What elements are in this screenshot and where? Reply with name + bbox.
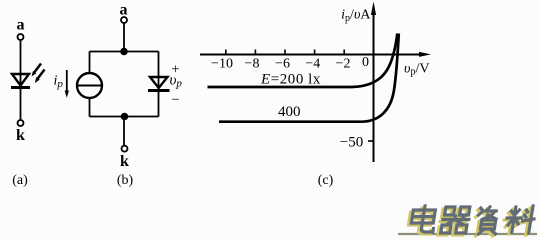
svg-text:−10: −10 — [211, 57, 233, 72]
svg-text:k: k — [16, 127, 25, 144]
svg-text:(a): (a) — [12, 173, 28, 188]
junction bottom — [121, 113, 129, 121]
tick -4 — [314, 50, 316, 55]
svg-text:k: k — [120, 153, 129, 170]
svg-text:−: − — [171, 92, 179, 108]
svg-text:(c): (c) — [318, 173, 334, 188]
diode VD (part b) cathode bar — [148, 89, 170, 92]
photodiode VD (part a) cathode bar — [11, 86, 30, 89]
tick -10 — [225, 50, 227, 55]
svg-text:400: 400 — [278, 104, 301, 120]
svg-text:−50: −50 — [340, 135, 363, 151]
wire bottom rail — [90, 116, 159, 118]
junction top — [120, 48, 128, 56]
tick -50 on y axis — [368, 140, 374, 142]
terminal k (part b) — [122, 146, 128, 152]
photodiode VD (part a) triangle — [12, 74, 29, 86]
terminal a (part a) — [18, 34, 24, 40]
curve 400lx — [219, 34, 399, 122]
svg-text:−2: −2 — [336, 57, 351, 72]
light arrow 1 — [32, 64, 42, 77]
svg-text:−6: −6 — [275, 57, 290, 72]
wire left branch upper — [89, 52, 91, 74]
svg-text:a: a — [17, 17, 25, 34]
wire left branch lower — [89, 98, 91, 117]
svg-text:−8: −8 — [245, 57, 260, 72]
tick -2 — [343, 50, 345, 55]
diode VD (part b) triangle — [150, 77, 168, 88]
tick -8 — [254, 50, 256, 55]
curve E=200lx — [208, 34, 398, 88]
terminal a (part b) — [121, 17, 127, 23]
watermark text (stylized) — [407, 206, 536, 236]
light arrow 2 — [35, 70, 45, 84]
current arrow iP — [65, 70, 69, 98]
wire top rail — [90, 51, 159, 53]
wire bottom rail to terminal k — [123, 117, 125, 146]
svg-text:(b): (b) — [117, 173, 134, 188]
current source chord — [78, 85, 102, 87]
svg-text:−4: −4 — [305, 57, 320, 72]
wire terminal a to top rail — [123, 23, 125, 52]
svg-text:0: 0 — [362, 55, 369, 70]
x axis — [200, 52, 431, 57]
wire right branch — [158, 52, 160, 117]
y axis — [371, 2, 376, 163]
svg-text:υp/V: υp/V — [404, 62, 429, 78]
svg-text:E=200 lx: E=200 lx — [260, 72, 321, 88]
terminal k (part a) — [18, 120, 24, 126]
watermark underline — [398, 233, 537, 235]
tick -6 — [284, 50, 286, 55]
svg-text:a: a — [120, 2, 128, 19]
wire anode-cathode (part a) — [20, 40, 22, 120]
current source Ip circle — [77, 73, 102, 98]
